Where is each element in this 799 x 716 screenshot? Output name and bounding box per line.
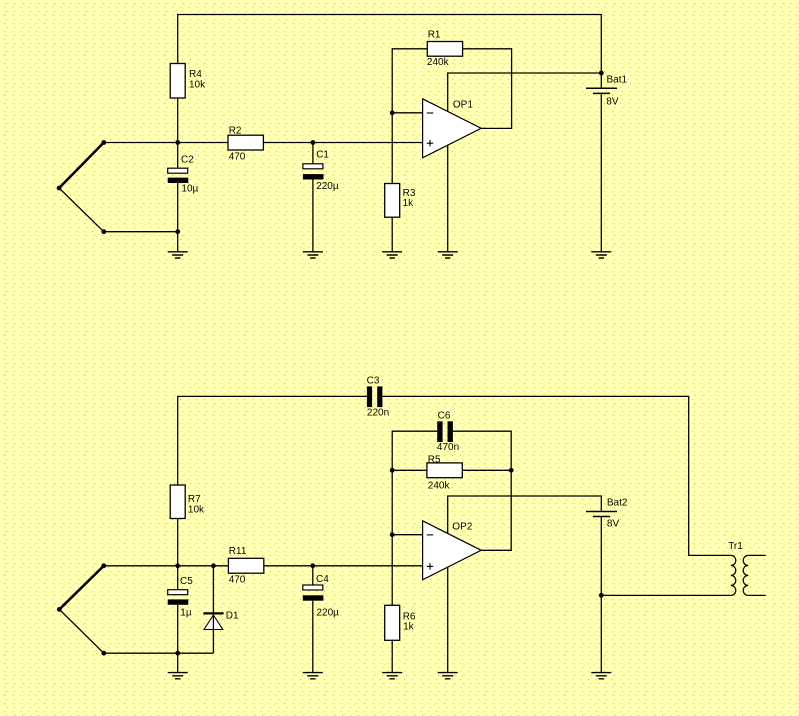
node D1 top [211,563,216,568]
resistor R7 [170,485,185,519]
node input bottom [101,229,106,234]
wire Tr1 secondary top [748,554,766,556]
node feedback left junction [390,468,395,473]
svg-text:220µ: 220µ [317,608,340,619]
op-amp OP1 [423,99,482,158]
svg-text:240k: 240k [428,480,451,491]
svg-text:C4: C4 [316,574,329,585]
node R7-C5 junction [175,563,180,568]
wire OP2 V+ pin to Bat2 [448,496,602,534]
svg-text:Bat1: Bat1 [607,74,628,85]
node C4 junction [310,563,315,568]
resistor R4 [170,64,185,99]
svg-text:C5: C5 [180,576,193,587]
node inverting junction [390,110,395,115]
wire Tr1 primary return [601,594,731,596]
svg-text:Bat2: Bat2 [607,497,628,508]
svg-text:D1: D1 [226,611,239,622]
wire OP2 output loop [481,470,511,550]
svg-text:470: 470 [229,152,246,163]
electrode 2 top (thick) [59,566,104,610]
wire feedback vertical down to R6 [391,470,393,605]
ground OP1 [438,252,458,258]
node C5 bottom junction [175,651,180,656]
svg-text:10k: 10k [188,505,205,516]
svg-text:OP1: OP1 [453,100,473,111]
diode D1 wire [212,566,214,613]
op-amp OP2 [423,521,482,580]
node C1 junction [311,140,316,145]
wire R6 to ground [391,640,393,672]
resistor R2 [228,135,263,150]
battery Bat2 [586,511,617,513]
transformer Tr1 primary winding [731,555,736,595]
transformer Tr1 secondary winding [743,555,748,595]
ground OP2 [438,673,458,679]
node Bat1 top [599,71,604,76]
wire C6 right branch [453,431,511,470]
svg-text:8V: 8V [606,96,619,107]
svg-text:1k: 1k [403,198,415,209]
wire C3 right to transformer [382,396,730,555]
resistor R11 [228,558,263,573]
wire C2 top lead [177,143,179,169]
wire inverting input [392,112,422,114]
svg-text:220µ: 220µ [316,181,339,192]
wire C2 bottom to ground [177,183,179,251]
wire OP1 V+ pin to battery [448,73,602,111]
svg-text:OP2: OP2 [452,522,472,533]
wire Tr1 secondary bottom [748,594,766,596]
resistor R1 [427,42,462,57]
svg-text:C1: C1 [316,150,329,161]
ground C2 [168,252,188,258]
wire R5 right lead [462,469,511,471]
svg-text:R5: R5 [428,454,441,465]
ground Bat1 [591,252,611,258]
svg-text:1µ: 1µ [180,607,192,618]
plus sign OP1 [427,140,433,146]
wire C5 bottom to ground [177,605,179,672]
svg-text:220n: 220n [367,407,389,418]
svg-text:470: 470 [229,574,246,585]
node Bat2-Tr1 junction [599,593,604,598]
electrode input bottom (thin) [59,188,178,232]
svg-text:R4: R4 [189,69,202,80]
wire C6 left branch [392,431,437,470]
capacitor C3 [367,386,372,407]
svg-text:R3: R3 [403,188,416,199]
ground C4 [303,673,323,679]
capacitor C2 [168,168,188,173]
ground C5 [168,673,188,679]
resistor R5 [427,463,462,478]
ground R3 [382,252,402,258]
capacitor C5 [168,590,188,595]
resistor R3 [385,184,400,218]
wire R3 to ground [391,217,393,251]
wire OP1 gnd pin [447,145,449,251]
wire R2 to opamp [263,142,422,144]
electrode 2 bottom (thin) [59,609,213,653]
svg-text:8V: 8V [607,519,620,530]
diode D1 [203,612,223,614]
node feedback right junction [509,468,514,473]
battery Bat1 [586,87,617,89]
wire C1 bottom to ground [312,180,314,252]
svg-text:R7: R7 [188,494,201,505]
svg-text:R1: R1 [428,29,441,40]
ground Bat2 [591,673,611,679]
svg-text:240k: 240k [427,57,450,68]
plus sign OP2 [427,563,433,569]
svg-text:1k: 1k [403,622,415,633]
wire main input line 2 [104,565,229,567]
resistor R6 [385,605,400,640]
svg-text:C3: C3 [367,375,380,386]
minus sign OP1 [427,112,433,114]
node electrode left [57,186,62,191]
node R4-C2 junction [175,140,180,145]
wire R4 bottom lead [177,98,179,143]
svg-text:R2: R2 [229,125,242,136]
wire R5 left lead [392,469,427,471]
wire inverting input 2 [392,534,422,536]
svg-text:10k: 10k [189,79,206,90]
node input2 bottom [101,651,106,656]
svg-text:10µ: 10µ [181,184,198,195]
capacitor C4 [303,585,323,590]
wire top supply rail [178,15,602,88]
node inverting junction 2 [390,532,395,537]
node input top [101,140,106,145]
wire R1 right lead to output [463,49,512,129]
svg-text:Tr1: Tr1 [728,541,743,552]
svg-text:C2: C2 [181,155,194,166]
minus sign OP2 [427,534,433,536]
wire C4 bottom to ground [312,601,314,672]
capacitor C1 [303,164,323,169]
wire R7 bottom lead [177,519,179,566]
wire R1 left lead down to R3 [392,49,427,184]
svg-text:R11: R11 [229,546,247,557]
wire R11 to opamp [264,565,423,567]
wire C1 top lead [312,143,314,164]
svg-text:C6: C6 [438,410,451,421]
wire main input line [104,142,228,144]
wire Bat1 bottom to ground [600,94,602,251]
wire C5 top lead [177,566,179,590]
wire C4 top lead [312,566,314,585]
ground C1 [303,252,323,258]
node C2 bottom junction [175,229,180,234]
ground R6 [382,673,402,679]
wire OP2 gnd pin [447,567,449,672]
wire bottom rail left + R7 top lead [178,396,367,485]
capacitor C6 [437,421,442,442]
wire Bat2 bottom to ground [600,517,602,672]
electrode input top (thick) [59,143,104,189]
node input2 top [101,563,106,568]
svg-text:470n: 470n [437,442,459,453]
node electrode2 left [57,607,62,612]
